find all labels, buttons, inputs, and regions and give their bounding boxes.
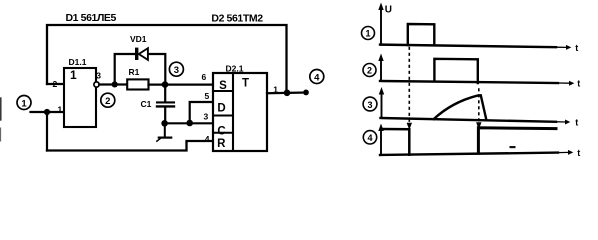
axis vertical row2 bbox=[380, 58, 382, 81]
svg-text:D2 561ТМ2: D2 561ТМ2 bbox=[211, 13, 263, 25]
flip-flop D2.1 bbox=[213, 73, 267, 151]
svg-text:4: 4 bbox=[205, 134, 210, 144]
diode VD1 bbox=[135, 48, 138, 60]
svg-text:2: 2 bbox=[53, 79, 58, 89]
node terminal 3 bbox=[169, 62, 183, 76]
svg-text:4: 4 bbox=[314, 72, 320, 83]
svg-text:C: C bbox=[217, 126, 225, 138]
wire Q output bbox=[267, 91, 306, 94]
wire D branch bbox=[190, 102, 213, 123]
scan artifact left edge bbox=[0, 98, 2, 120]
node label 1 bbox=[362, 27, 375, 40]
svg-text:3: 3 bbox=[174, 65, 179, 76]
svg-text:t: t bbox=[575, 117, 578, 127]
junction capacitor bottom bbox=[161, 120, 168, 127]
node terminal 4 bbox=[310, 70, 324, 84]
output bubble bbox=[94, 82, 99, 87]
svg-text:4: 4 bbox=[367, 133, 372, 143]
node label 3 bbox=[363, 97, 377, 111]
axis t row3 bbox=[381, 118, 557, 122]
svg-text:1: 1 bbox=[365, 29, 370, 39]
junction input node bbox=[44, 109, 50, 115]
axis t row1 bbox=[380, 45, 556, 48]
wire C node to C pin bbox=[165, 122, 213, 124]
junction feedback bbox=[284, 90, 291, 97]
svg-text:6: 6 bbox=[202, 72, 207, 82]
waveform 4 high segment 1 bbox=[382, 129, 409, 155]
svg-text:D2.1: D2.1 bbox=[226, 63, 244, 73]
wire R1 to S pin bbox=[149, 83, 214, 85]
waveform 4 high segment 2 bbox=[478, 128, 556, 154]
svg-text:3: 3 bbox=[367, 100, 372, 110]
svg-text:t: t bbox=[575, 43, 578, 53]
axis t row2 bbox=[380, 81, 558, 83]
dotted timeline x=479 bbox=[478, 89, 480, 122]
node label 4 bbox=[363, 131, 376, 144]
diode loop wire left bbox=[115, 54, 135, 84]
svg-text:t: t bbox=[577, 79, 580, 89]
axis vertical row4 bbox=[380, 128, 382, 155]
svg-text:t: t bbox=[577, 148, 580, 158]
node label 2 bbox=[363, 64, 376, 77]
wire feedback top rail bbox=[47, 25, 287, 93]
ground bbox=[164, 123, 166, 137]
dotted timeline x=409.5 bbox=[408, 48, 410, 123]
axis vertical row3 bbox=[381, 92, 383, 119]
svg-text:D: D bbox=[217, 102, 225, 114]
svg-text:3: 3 bbox=[96, 71, 101, 81]
wire down to bottom rail bbox=[46, 112, 48, 151]
axis t row4 bbox=[380, 153, 558, 155]
svg-text:T: T bbox=[242, 78, 249, 90]
svg-text:S: S bbox=[219, 80, 227, 92]
node terminal 2 bbox=[101, 93, 115, 107]
diode loop wire right bbox=[148, 54, 166, 85]
svg-text:1: 1 bbox=[58, 105, 63, 115]
svg-text:C1: C1 bbox=[141, 99, 152, 109]
resistor R1 bbox=[127, 79, 148, 89]
svg-text:1: 1 bbox=[70, 68, 77, 82]
svg-text:2: 2 bbox=[105, 96, 110, 107]
svg-text:1: 1 bbox=[21, 98, 27, 109]
svg-text:D1 561ЛЕ5: D1 561ЛЕ5 bbox=[66, 12, 117, 24]
axis U vertical row1 bbox=[380, 7, 382, 45]
wire bottom rail to R pin bbox=[47, 141, 213, 151]
svg-text:VD1: VD1 bbox=[130, 34, 147, 44]
svg-text:D1.1: D1.1 bbox=[69, 57, 87, 67]
svg-text:R1: R1 bbox=[129, 67, 140, 77]
wire gate pin2 input bbox=[47, 83, 64, 85]
junction VD1 left bbox=[112, 81, 118, 87]
junction D branch bbox=[186, 120, 193, 127]
waveform 1 pulse bbox=[408, 24, 435, 45]
junction node3 bbox=[162, 81, 169, 88]
svg-text:R: R bbox=[217, 138, 226, 150]
svg-text:3: 3 bbox=[204, 112, 209, 122]
svg-text:5: 5 bbox=[205, 91, 210, 101]
capacitor C1 bbox=[164, 85, 166, 102]
wire gate output to R1 bbox=[99, 83, 127, 85]
svg-text:U: U bbox=[385, 5, 392, 16]
node terminal 1 bbox=[17, 96, 31, 110]
waveform 3 exponential bbox=[434, 95, 487, 119]
gate D1.1 bbox=[64, 68, 96, 127]
scan speck row4 bbox=[510, 146, 516, 148]
waveform 2 pulse bbox=[434, 59, 477, 83]
wire node1 to gate pin1 bbox=[31, 111, 65, 113]
svg-text:2: 2 bbox=[367, 66, 372, 76]
terminal dot output bbox=[303, 90, 309, 96]
